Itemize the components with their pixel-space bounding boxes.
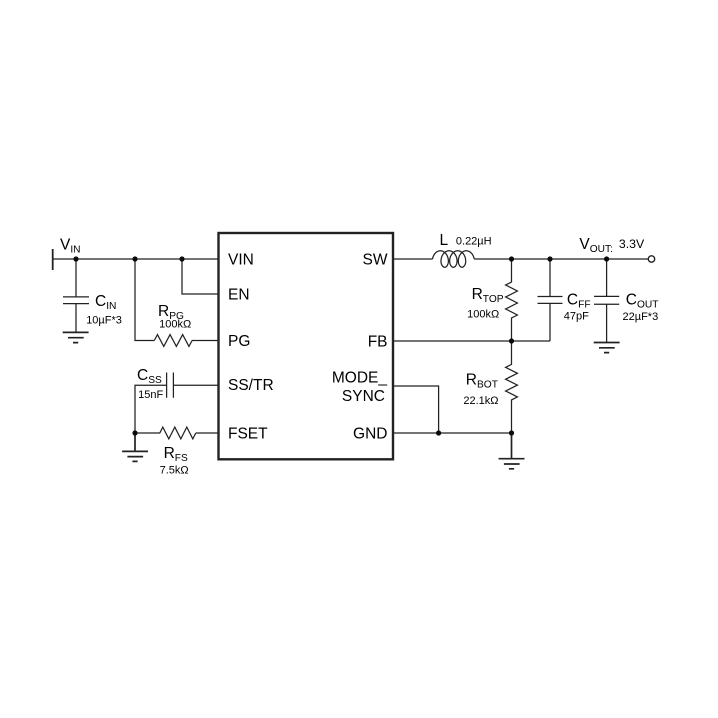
- wire MODE_SYNC: [393, 386, 439, 433]
- output terminal: [648, 256, 654, 262]
- svg-text:SYNC: SYNC: [342, 388, 385, 405]
- svg-text:7.5kΩ: 7.5kΩ: [160, 465, 189, 477]
- svg-text:47pF: 47pF: [564, 310, 589, 322]
- svg-text:VOUT:3.3V: VOUT:3.3V: [579, 236, 645, 255]
- wire SW to inductor: [393, 258, 433, 260]
- svg-text:22µF*3: 22µF*3: [623, 311, 659, 323]
- svg-text:15nF: 15nF: [138, 389, 163, 401]
- inductor L1: [433, 251, 475, 267]
- svg-text:22.1kΩ: 22.1kΩ: [463, 395, 498, 407]
- ground: [499, 433, 525, 469]
- svg-text:RFS: RFS: [164, 445, 188, 464]
- svg-text:GND: GND: [353, 425, 387, 442]
- resistor R4 RBOT: [506, 341, 518, 433]
- svg-text:100kΩ: 100kΩ: [159, 319, 191, 331]
- svg-text:PG: PG: [228, 333, 250, 350]
- svg-text:RTOP: RTOP: [472, 286, 504, 305]
- capacitor C2 CSS: [167, 373, 219, 398]
- ground: [594, 343, 620, 353]
- resistor R3 RTOP: [506, 259, 518, 341]
- op-amp U1 IC body: [219, 233, 394, 459]
- capacitor C1 CIN: [63, 259, 89, 332]
- svg-text:0.22µH: 0.22µH: [456, 236, 492, 248]
- svg-text:SW: SW: [363, 251, 388, 268]
- wire EN branch: [182, 259, 219, 294]
- resistor R1 RPG: [154, 335, 192, 347]
- svg-text:FSET: FSET: [228, 425, 268, 442]
- svg-text:SS/TR: SS/TR: [228, 377, 274, 394]
- resistor R2 RFS: [135, 427, 219, 439]
- wire RPG to PG pin: [192, 340, 219, 342]
- svg-text:10µF*3: 10µF*3: [86, 315, 122, 327]
- wire CSS left to ground node: [135, 385, 167, 433]
- svg-text:CIN: CIN: [95, 293, 116, 312]
- capacitor C3 CFF: [538, 259, 563, 341]
- svg-text:FB: FB: [368, 333, 388, 350]
- svg-text:VIN: VIN: [60, 237, 81, 256]
- svg-text:100kΩ: 100kΩ: [467, 309, 499, 321]
- svg-text:VIN: VIN: [228, 251, 254, 268]
- ground: [63, 332, 89, 342]
- capacitor C4 COUT: [594, 259, 619, 343]
- svg-text:MODE_: MODE_: [332, 370, 388, 387]
- svg-text:L: L: [440, 232, 449, 249]
- wire output rail: [474, 258, 648, 260]
- wire RPG branch: [135, 259, 154, 341]
- input terminal: [52, 249, 54, 270]
- node junction dots: [73, 256, 78, 261]
- svg-text:RBOT: RBOT: [466, 372, 498, 391]
- ground: [122, 433, 148, 461]
- wire input rail VIN: [53, 258, 219, 260]
- svg-text:CSS: CSS: [137, 367, 162, 386]
- svg-text:EN: EN: [228, 286, 250, 303]
- wire FB rail: [393, 340, 550, 342]
- svg-text:COUT: COUT: [626, 291, 659, 310]
- wire GND rail: [393, 432, 512, 434]
- svg-text:CFF: CFF: [567, 291, 591, 310]
